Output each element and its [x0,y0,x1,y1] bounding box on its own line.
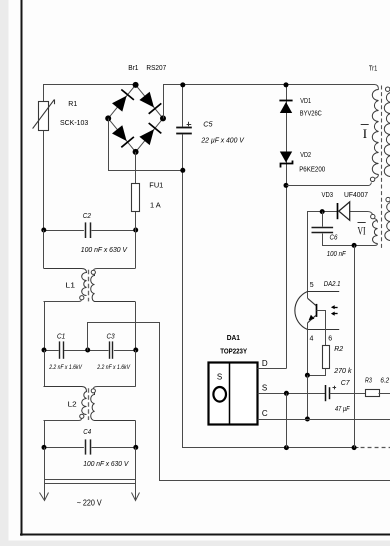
svg-text:DA2.1: DA2.1 [324,279,341,288]
svg-text:FU1: FU1 [149,180,163,189]
svg-text:C4: C4 [83,427,91,436]
svg-text:RS207: RS207 [146,63,166,72]
svg-text:6: 6 [328,336,332,343]
svg-text:C1: C1 [57,332,66,341]
svg-text:4: 4 [310,336,314,343]
svg-text:DA1: DA1 [227,333,240,342]
svg-text:VD1: VD1 [300,96,311,105]
svg-text:R2: R2 [334,344,343,353]
svg-text:BYV26C: BYV26C [300,109,323,118]
svg-text:R3: R3 [365,376,373,385]
svg-text:100 nF x 630 V: 100 nF x 630 V [83,459,129,468]
svg-text:47 µF: 47 µF [335,404,350,413]
svg-text:TOP223Y: TOP223Y [220,347,247,356]
svg-text:C7: C7 [341,378,351,387]
svg-text:22 µF x 400 V: 22 µF x 400 V [200,136,244,145]
svg-text:L2: L2 [68,400,77,409]
svg-text:S: S [217,372,222,381]
svg-text:Br1: Br1 [128,63,138,72]
svg-text:R1: R1 [68,99,77,108]
svg-text:100 nF: 100 nF [327,249,346,258]
svg-text:VD3: VD3 [322,190,334,199]
svg-text:270 k: 270 k [333,366,352,375]
svg-text:Tr1: Tr1 [369,63,377,72]
svg-text:C3: C3 [107,332,115,341]
svg-text:5: 5 [310,282,314,289]
svg-text:D: D [262,359,268,368]
svg-text:VI: VI [358,225,366,237]
svg-text:C: C [262,409,268,418]
svg-text:1 A: 1 A [150,200,161,209]
svg-text:VD2: VD2 [300,150,311,159]
svg-text:I: I [363,126,367,141]
svg-text:2.2 nF x 1.6kV: 2.2 nF x 1.6kV [48,364,82,371]
svg-text:~ 220 V: ~ 220 V [77,499,103,508]
svg-text:L1: L1 [65,281,75,290]
svg-text:6.2: 6.2 [380,376,389,385]
svg-text:P6KE200: P6KE200 [299,164,325,173]
svg-text:C6: C6 [330,232,338,241]
svg-text:C5: C5 [203,120,213,129]
svg-text:C2: C2 [83,211,92,220]
svg-text:UF4007: UF4007 [344,190,368,199]
svg-text:S: S [262,384,267,393]
svg-text:2.2 nF x 1.6kV: 2.2 nF x 1.6kV [97,364,131,371]
svg-text:SCK-103: SCK-103 [60,118,88,127]
svg-text:100 nF x 630 V: 100 nF x 630 V [81,245,128,254]
